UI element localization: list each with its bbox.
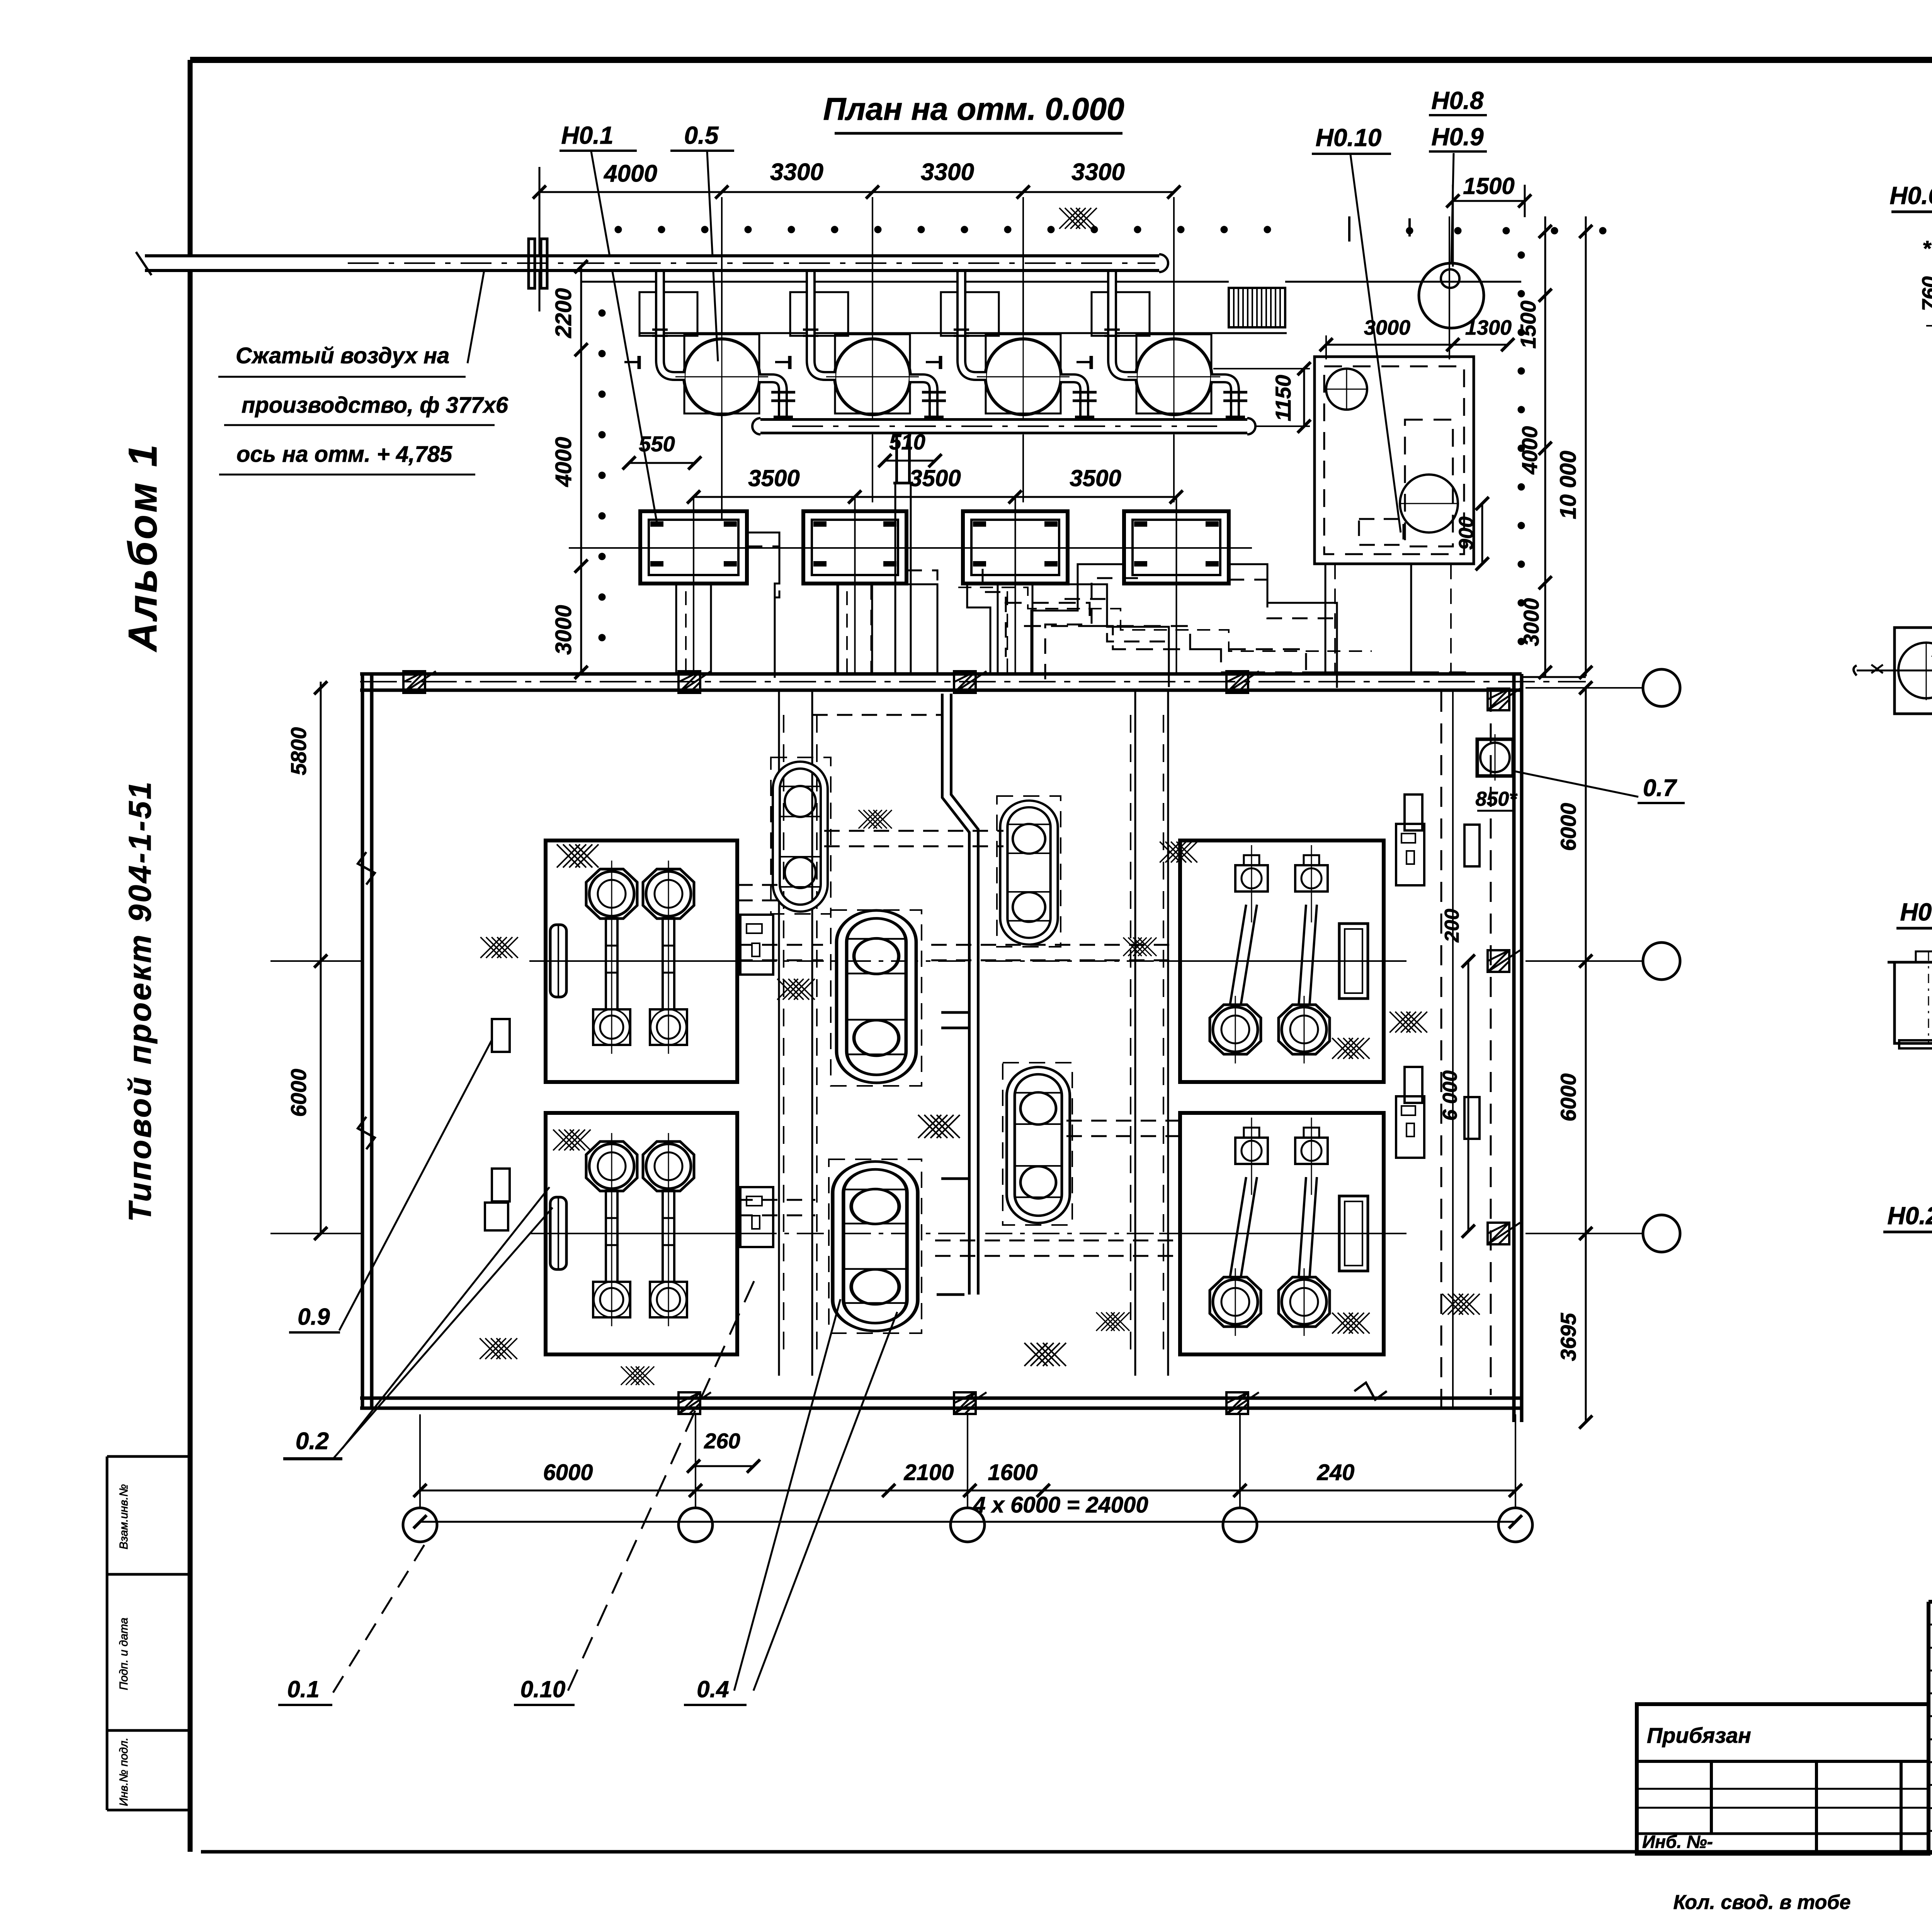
svg-text:3300: 3300 [921, 159, 974, 185]
svg-text:0.10: 0.10 [520, 1676, 566, 1702]
compressor 4 [1077, 272, 1247, 435]
compressed air main pipe [145, 254, 1159, 272]
aux room [1315, 357, 1474, 564]
svg-text:0.9: 0.9 [298, 1304, 330, 1330]
foundation rect 2 [803, 511, 906, 584]
big circle N0.8/N0.9 [1419, 263, 1484, 328]
svg-text:Н0.2: Н0.2 [1887, 1202, 1932, 1230]
left hall dims [320, 682, 322, 1233]
machine BR [1159, 1067, 1480, 1354]
right hall dims [1468, 961, 1469, 1231]
svg-text:ось на отм. + 4,785: ось на отм. + 4,785 [236, 442, 452, 467]
svg-text:Взам.инв.№: Взам.инв.№ [117, 1484, 130, 1550]
compressor 3 [926, 272, 1097, 435]
svg-text:6000: 6000 [286, 1069, 311, 1117]
svg-text:4 x 6000 = 24000: 4 x 6000 = 24000 [973, 1492, 1148, 1518]
svg-text:0.4: 0.4 [697, 1676, 729, 1702]
svg-text:Типовой проект 904-1-51: Типовой проект 904-1-51 [122, 780, 158, 1222]
svg-text:3695: 3695 [1556, 1313, 1580, 1361]
svg-text:Н0.10: Н0.10 [1316, 124, 1382, 151]
corridor verticals [778, 692, 780, 1376]
svg-text:Н0.6: Н0.6 [1889, 182, 1932, 209]
svg-text:4000: 4000 [551, 437, 576, 487]
wall brackets [492, 1019, 510, 1052]
svg-text:Н0.1: Н0.1 [561, 121, 613, 149]
svg-text:6 000: 6 000 [1439, 1070, 1461, 1121]
bottom wall [360, 1397, 1522, 1400]
svg-text:550: 550 [639, 432, 675, 456]
right dim chain 1500/4000/3000 [1544, 216, 1546, 676]
dim 1150 [1303, 369, 1305, 426]
svg-text:260: 260 [704, 1429, 740, 1453]
border frame [190, 57, 1932, 63]
svg-text:1500: 1500 [1516, 301, 1540, 349]
hall axis line [360, 681, 1586, 682]
dim row 3500 [694, 496, 1176, 498]
svg-text:200: 200 [1441, 909, 1463, 943]
pribyazan block [1637, 1704, 1929, 1854]
machine TL [529, 840, 773, 1082]
hall top wall [360, 672, 1522, 676]
grid dots row [615, 226, 622, 233]
svg-text:План на отм. 0.000: План на отм. 0.000 [823, 92, 1124, 127]
svg-text:850*: 850* [1476, 788, 1518, 810]
svg-text:3000: 3000 [1519, 598, 1543, 647]
svg-text:0.2: 0.2 [296, 1428, 329, 1455]
rect channels down [675, 584, 677, 674]
standpipe flanges [941, 1011, 968, 1014]
svg-text:5800: 5800 [286, 727, 311, 776]
svg-text:Н0.8: Н0.8 [1431, 87, 1484, 114]
svg-text:3000: 3000 [551, 605, 576, 655]
svg-text:0.7: 0.7 [1643, 775, 1677, 801]
dim 900 [1481, 504, 1483, 564]
column grid circles bottom [403, 1508, 437, 1542]
manifold branch down [895, 434, 911, 483]
svg-text:3500: 3500 [909, 465, 961, 491]
svg-text:240: 240 [1317, 1460, 1355, 1485]
manifold pipe [760, 418, 1247, 434]
machine BL [529, 1113, 773, 1354]
column grid circles right [1643, 669, 1680, 706]
grid dots column right [1518, 252, 1525, 259]
svg-text:1300: 1300 [1465, 316, 1512, 339]
compressor 2 [775, 272, 946, 435]
foundation rect 4 [1124, 511, 1229, 584]
left wall [361, 674, 364, 1408]
svg-text:3500: 3500 [748, 465, 799, 491]
svg-text:6000: 6000 [1556, 803, 1580, 851]
wall break marks [358, 852, 375, 885]
svg-text:0.1: 0.1 [287, 1676, 319, 1702]
svg-text:4000: 4000 [1517, 426, 1542, 475]
svg-text:Прибязан: Прибязан [1647, 1723, 1751, 1747]
channel drop from branch [895, 483, 896, 672]
bottom dim row [420, 1490, 1515, 1492]
7-7 tank at 4903 [1888, 961, 1932, 964]
svg-text:3300: 3300 [1071, 159, 1125, 185]
svg-text:900: 900 [1455, 517, 1478, 550]
pipe flange [529, 239, 535, 288]
svg-text:0.5: 0.5 [684, 121, 719, 149]
aux room drops [1325, 564, 1327, 674]
svg-text:производство, ф 377x6: производство, ф 377x6 [241, 393, 509, 418]
svg-text:Подп. и дата: Подп. и дата [117, 1618, 130, 1690]
svg-text:510: 510 [889, 430, 925, 454]
svg-text:760: 760 [1918, 276, 1932, 311]
svg-text:3000: 3000 [1364, 316, 1410, 339]
dim 24000 [420, 1521, 1515, 1523]
svg-text:Сжатый воздух на: Сжатый воздух на [236, 343, 449, 368]
grid dots column left [599, 310, 605, 316]
svg-text:Инб. №-: Инб. №- [1642, 1832, 1713, 1852]
svg-text:3500: 3500 [1070, 465, 1121, 491]
left dim chain [580, 267, 582, 672]
corridor connectors [737, 884, 779, 886]
pump unit at 4903 [1895, 628, 1932, 714]
dim 3000/1300 [1326, 344, 1508, 346]
compressor 1 [624, 272, 795, 435]
svg-text:Альбом 1: Альбом 1 [121, 442, 165, 652]
svg-text:3300: 3300 [770, 159, 823, 185]
loop enclosures dashed [771, 757, 831, 914]
title block outline [1929, 1600, 1932, 1604]
foundation rect 1 [640, 511, 747, 584]
svg-text:*: * [1923, 236, 1932, 260]
svg-text:10 000: 10 000 [1556, 451, 1581, 519]
svg-text:4000: 4000 [603, 160, 657, 187]
vent grill [1229, 288, 1285, 327]
hall hatch marks [557, 844, 599, 868]
item 0.7 square [1477, 739, 1513, 776]
foundation rect 3 [963, 511, 1068, 584]
svg-text:Н0.9: Н0.9 [1431, 123, 1484, 151]
machine TR [1159, 795, 1480, 1082]
dimension row 4000/3300 [539, 191, 1174, 193]
margin table [106, 1456, 109, 1810]
stepped duct channels [747, 533, 779, 672]
right wall [1512, 674, 1516, 1422]
svg-text:Инв.№ подл.: Инв.№ подл. [117, 1737, 130, 1806]
right dim 10000 [1585, 216, 1587, 676]
wall columns hatched [403, 671, 436, 693]
svg-text:6000: 6000 [543, 1460, 593, 1485]
svg-text:1500: 1500 [1463, 173, 1514, 199]
machine axes to left [270, 960, 363, 962]
svg-text:2100: 2100 [903, 1460, 954, 1485]
svg-text:Кол. свод. в тобе: Кол. свод. в тобе [1673, 1891, 1850, 1914]
room circle small [1326, 369, 1367, 410]
svg-text:Н0.4: Н0.4 [1900, 898, 1932, 926]
svg-text:1600: 1600 [988, 1460, 1037, 1485]
pipe loops center [776, 765, 824, 908]
wall line under pipe [581, 281, 1229, 283]
svg-text:1150: 1150 [1271, 375, 1295, 421]
dimension 1500 top right [1453, 200, 1525, 202]
svg-text:2200: 2200 [551, 288, 576, 338]
corridor dashed bounds right [1440, 692, 1442, 1408]
room circle big [1400, 475, 1458, 533]
svg-text:6000: 6000 [1556, 1074, 1580, 1122]
central standpipe [947, 694, 974, 1295]
